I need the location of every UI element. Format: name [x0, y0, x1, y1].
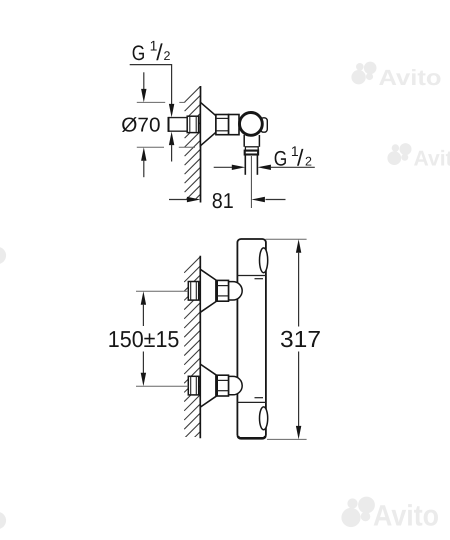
thermostat bar body [237, 239, 266, 438]
svg-text:2: 2 [164, 49, 171, 63]
svg-text:Avito: Avito [379, 65, 442, 90]
svg-text:Avito: Avito [414, 147, 450, 171]
watermark avito mid-right (clipped) [387, 143, 450, 170]
lower wall nut [188, 376, 198, 395]
svg-text:G: G [274, 148, 288, 171]
bar joint line upper [237, 275, 266, 277]
lower union hex nut [217, 375, 228, 396]
svg-text:2: 2 [305, 155, 312, 169]
wall line (top drawing) [200, 86, 202, 203]
dimension 150+-15 extension lines [136, 291, 188, 386]
O70 dimension extension lines [137, 102, 195, 147]
hex nut on supply pipe [187, 116, 198, 132]
escutcheon cone O70 [200, 102, 216, 146]
watermark fragment left edge [0, 247, 6, 264]
outlet pipe stub [245, 155, 257, 175]
svg-text:317: 317 [280, 326, 321, 352]
watermark avito top-right [351, 62, 441, 90]
dimension 317 line and arrows [296, 239, 301, 439]
upper wall nut [188, 282, 198, 301]
svg-text:G: G [132, 42, 146, 65]
bar joint line lower [237, 401, 266, 403]
dimension 150+-15 line and arrows [141, 291, 146, 386]
label G 1/2 (right) [274, 143, 312, 171]
label G 1/2 (top) [132, 37, 171, 65]
lower arrow of G 1/2 callout [169, 132, 174, 162]
svg-text:81: 81 [212, 189, 234, 213]
elbow lower flange (thick) [245, 151, 258, 155]
valve body neck [244, 134, 259, 147]
watermark fragment bottom-left [0, 512, 6, 529]
leader G 1/2 top [130, 65, 175, 118]
svg-text:Ø70: Ø70 [121, 115, 160, 137]
upper union hex nut [217, 280, 228, 301]
bar bottom rim (thick) [238, 436, 265, 438]
watermark avito bottom-right [341, 497, 439, 533]
hex adapter [216, 115, 229, 135]
dimension 317 extension lines [266, 239, 307, 439]
G 1/2 supply pipe through wall [168, 117, 188, 132]
svg-text:/: / [156, 39, 163, 65]
elbow ring band [245, 147, 258, 151]
lower union escutcheon cone [200, 364, 216, 407]
G 1/2 callout (right, outlet) arrows [214, 165, 315, 170]
O70 dimension arrows [141, 72, 146, 177]
wall line (bottom drawing) [199, 256, 201, 438]
valve body circle [240, 113, 263, 136]
wall (top drawing) hatching [185, 86, 201, 219]
outlet centerline [250, 156, 252, 208]
bar joint tick lower [255, 397, 264, 399]
connecting ring [229, 115, 239, 135]
upper union connector to bar [229, 282, 243, 300]
lower union connector to bar [229, 376, 243, 394]
bottom cartridge oval [260, 407, 268, 430]
svg-text:Avito: Avito [373, 500, 439, 533]
dimension 81 [169, 197, 286, 202]
top cartridge oval [260, 248, 268, 273]
svg-text:/: / [297, 144, 304, 170]
side cap button [261, 118, 268, 132]
bar joint tick upper [255, 278, 264, 280]
wall (bottom drawing) hatching [184, 256, 200, 456]
svg-text:150±15: 150±15 [108, 326, 180, 352]
upper union escutcheon cone [200, 269, 216, 312]
